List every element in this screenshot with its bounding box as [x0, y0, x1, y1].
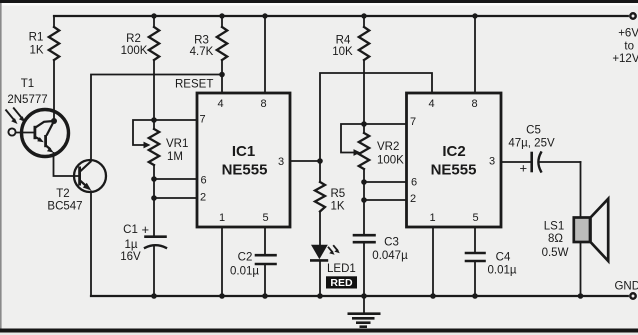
IC1 box [197, 93, 290, 227]
junction node R4 / V+ rail [361, 13, 366, 18]
wire IC1 pin6 [154, 178, 197, 180]
svg-text:NE555: NE555 [222, 162, 268, 179]
potentiometer VR1 [149, 129, 159, 165]
wire R2 bottom to VR1 junction [153, 60, 155, 120]
junction node IC1 pin6 [151, 176, 157, 182]
svg-text:R2: R2 [126, 33, 141, 45]
wire C1 top lead [153, 198, 155, 236]
svg-text:1µ: 1µ [124, 239, 137, 251]
svg-text:C1: C1 [123, 224, 138, 236]
bottom ground rail [91, 295, 628, 297]
junction node IC2 pin2 / C3 [361, 197, 367, 203]
junction node IC1 pin1 / ground rail [219, 293, 225, 299]
wire R5 bottom to LED1 [319, 212, 321, 246]
wire C2 bottom to rail [264, 264, 266, 296]
wire IC2 pin7 [364, 123, 407, 125]
wire VR2 bottom [363, 169, 365, 200]
svg-text:VR2: VR2 [377, 141, 399, 153]
svg-text:0.01µ: 0.01µ [487, 265, 516, 277]
wire VR2 top lead [363, 124, 365, 133]
svg-text:0.047µ: 0.047µ [372, 250, 408, 262]
wire IC1 pin8 stub from rail [264, 16, 266, 93]
left frame line [0, 3, 2, 329]
wire R1 top lead from rail [53, 16, 55, 27]
svg-text:T1: T1 [21, 78, 34, 90]
wire C4 bottom to rail [474, 261, 476, 296]
svg-text:8Ω: 8Ω [548, 233, 563, 245]
svg-text:47µ, 25V: 47µ, 25V [508, 138, 555, 150]
wire T2 emitter to rail [90, 191, 92, 297]
resistor R1 [49, 27, 59, 60]
svg-text:C5: C5 [526, 125, 541, 137]
wire VR2 loop with arrow [341, 124, 364, 153]
resistor R3 [217, 27, 227, 60]
svg-text:T2: T2 [56, 188, 69, 200]
wire IC1 pin5 to C2 [264, 227, 266, 255]
wire VR1 bottom to pin6/pin2 column [153, 165, 155, 198]
wire R5 top lead [319, 161, 321, 182]
svg-text:6: 6 [200, 175, 206, 187]
svg-text:1: 1 [219, 212, 225, 224]
svg-text:8: 8 [471, 98, 477, 110]
capacitor C4 [466, 252, 485, 255]
wire C5 to speaker [540, 161, 581, 163]
junction node RESET / R3 / IC1 pin4 [219, 72, 225, 78]
wire R3 top lead [221, 16, 223, 27]
wire IC2 pin5 to C4 [474, 227, 476, 253]
wire IC1 pin3 to node [290, 160, 320, 162]
capacitor C3 [354, 234, 375, 237]
svg-text:RESET: RESET [175, 79, 213, 91]
junction node R2 / V+ rail [151, 13, 156, 18]
svg-text:2: 2 [410, 193, 416, 205]
svg-text:RED: RED [330, 277, 353, 289]
wire RESET net [91, 75, 222, 161]
wire IC1 pin4 stub [221, 75, 223, 94]
svg-text:+12V: +12V [612, 53, 638, 65]
capacitor C1 plates [146, 235, 166, 238]
junction node VR1 / R2 / IC1 pin7 [151, 117, 157, 123]
svg-text:C3: C3 [384, 237, 399, 249]
svg-text:C4: C4 [496, 252, 511, 264]
junction node C2 / ground rail [262, 293, 268, 299]
svg-text:LED1: LED1 [327, 263, 356, 275]
svg-text:VR1: VR1 [166, 138, 188, 150]
junction node C4 / ground rail [472, 293, 478, 299]
svg-text:1M: 1M [167, 151, 183, 163]
svg-text:GND: GND [614, 281, 638, 293]
terminal GND [630, 293, 635, 298]
svg-text:+: + [142, 222, 150, 237]
capacitor C5 plates [530, 153, 533, 171]
junction node LS1 / ground rail [578, 293, 584, 299]
wire speaker down to rail [580, 162, 582, 296]
svg-text:R3: R3 [194, 35, 209, 47]
junction node R3 / V+ rail [219, 13, 224, 18]
wire IC1 pin2 [154, 197, 197, 199]
svg-text:16V: 16V [120, 251, 141, 263]
svg-text:IC1: IC1 [232, 143, 255, 160]
svg-text:7: 7 [199, 114, 205, 126]
wire IC2 pin6 [364, 181, 407, 183]
wire IC2 pin2 [364, 199, 407, 201]
bottom frame bar [0, 329, 638, 333]
ground symbol [348, 314, 381, 327]
wire IC1 pin1 to rail [221, 227, 223, 296]
junction node IC2 pin1 / ground rail [430, 293, 436, 299]
svg-text:4.7K: 4.7K [190, 46, 214, 58]
transistor T2 [74, 160, 106, 192]
wire T1 emitter to T2 base [54, 152, 80, 176]
svg-text:LS1: LS1 [544, 221, 564, 233]
VR1 wiper arrowhead [144, 142, 151, 149]
wire VR1 loop with arrow [133, 120, 154, 145]
resistor R4 [359, 27, 369, 60]
resistor R2 [149, 27, 159, 60]
svg-text:NE555: NE555 [431, 162, 477, 179]
junction node C1 / ground rail [151, 293, 157, 299]
junction node LED1 cathode / ground rail [317, 293, 323, 299]
svg-text:2: 2 [200, 192, 206, 204]
LED LED1 [310, 245, 340, 261]
transistor T1 photodarlington [6, 108, 69, 157]
svg-text:2N5777: 2N5777 [7, 94, 47, 106]
wire node to IC2 pin4 [320, 73, 432, 161]
svg-text:R4: R4 [336, 35, 351, 47]
junction node T1 collector / R1 [51, 118, 57, 124]
wire VR1 body leads [153, 120, 155, 129]
svg-text:3: 3 [278, 156, 284, 168]
svg-text:8: 8 [260, 98, 266, 110]
svg-text:10K: 10K [332, 46, 353, 58]
wire R3 bottom to RESET node [221, 60, 223, 75]
terminal +6V..+12V [630, 13, 635, 18]
wire LED1 cathode to rail [319, 261, 321, 296]
svg-text:4: 4 [428, 98, 434, 110]
junction node IC1 pin2 / C1 [151, 195, 157, 201]
junction node IC2 pin6 [361, 179, 367, 185]
svg-text:5: 5 [472, 212, 478, 224]
svg-text:5: 5 [262, 212, 268, 224]
svg-text:R1: R1 [29, 32, 44, 44]
wire IC2 pin8 stub from rail [474, 16, 476, 93]
svg-text:0.01µ: 0.01µ [230, 266, 259, 278]
wire C3 bottom lead to rail [363, 242, 365, 296]
svg-text:IC2: IC2 [442, 143, 465, 160]
svg-text:BC547: BC547 [47, 201, 82, 213]
svg-text:0.5W: 0.5W [542, 247, 569, 259]
svg-text:+6V: +6V [618, 28, 638, 40]
wire C1 bottom lead to rail [153, 246, 155, 296]
wire C3 top lead [363, 200, 365, 235]
light arrows into T1 [6, 110, 15, 121]
top supply rail [54, 15, 628, 17]
junction node VR2 / R4 / IC2 pin7 [361, 121, 367, 127]
potentiometer VR2 [359, 133, 369, 169]
svg-text:C2: C2 [238, 252, 253, 264]
svg-text:1K: 1K [29, 45, 43, 57]
svg-text:6: 6 [411, 177, 417, 189]
wire IC2 pin1 to rail [432, 227, 434, 296]
svg-text:to: to [624, 41, 634, 53]
LED1 colour tag RED [326, 276, 357, 288]
VR2 wiper arrowhead [354, 149, 361, 156]
svg-text:7: 7 [410, 116, 416, 128]
IC2 box [407, 93, 502, 227]
wire R1 bottom to T1 collector [53, 60, 55, 121]
wire R4 bottom to VR2 junction [363, 60, 365, 124]
junction node IC1 pin8 / V+ rail [262, 13, 267, 18]
junction node C3 / ground symbol / ground rail [361, 293, 367, 299]
speaker LS1 [574, 199, 608, 261]
junction node IC1 pin3 / R5 / IC2 pin4 [317, 158, 323, 164]
svg-text:+: + [520, 161, 528, 176]
top frame bar [0, 0, 638, 3]
svg-text:100K: 100K [377, 155, 404, 167]
wire R4 top lead [363, 16, 365, 27]
resistor R5 [315, 182, 325, 212]
capacitor C2 [256, 254, 276, 257]
svg-text:4: 4 [217, 98, 223, 110]
svg-text:3: 3 [489, 156, 495, 168]
wire R2 top lead [153, 16, 155, 27]
junction node IC2 pin8 / V+ rail [472, 13, 477, 18]
ground stub [363, 296, 365, 312]
svg-text:1: 1 [429, 212, 435, 224]
wire IC2 pin3 to C5 [501, 161, 531, 163]
svg-text:100K: 100K [121, 45, 148, 57]
svg-text:1K: 1K [331, 201, 345, 213]
wire IC1 pin7 [154, 119, 197, 121]
svg-text:R5: R5 [331, 188, 346, 200]
